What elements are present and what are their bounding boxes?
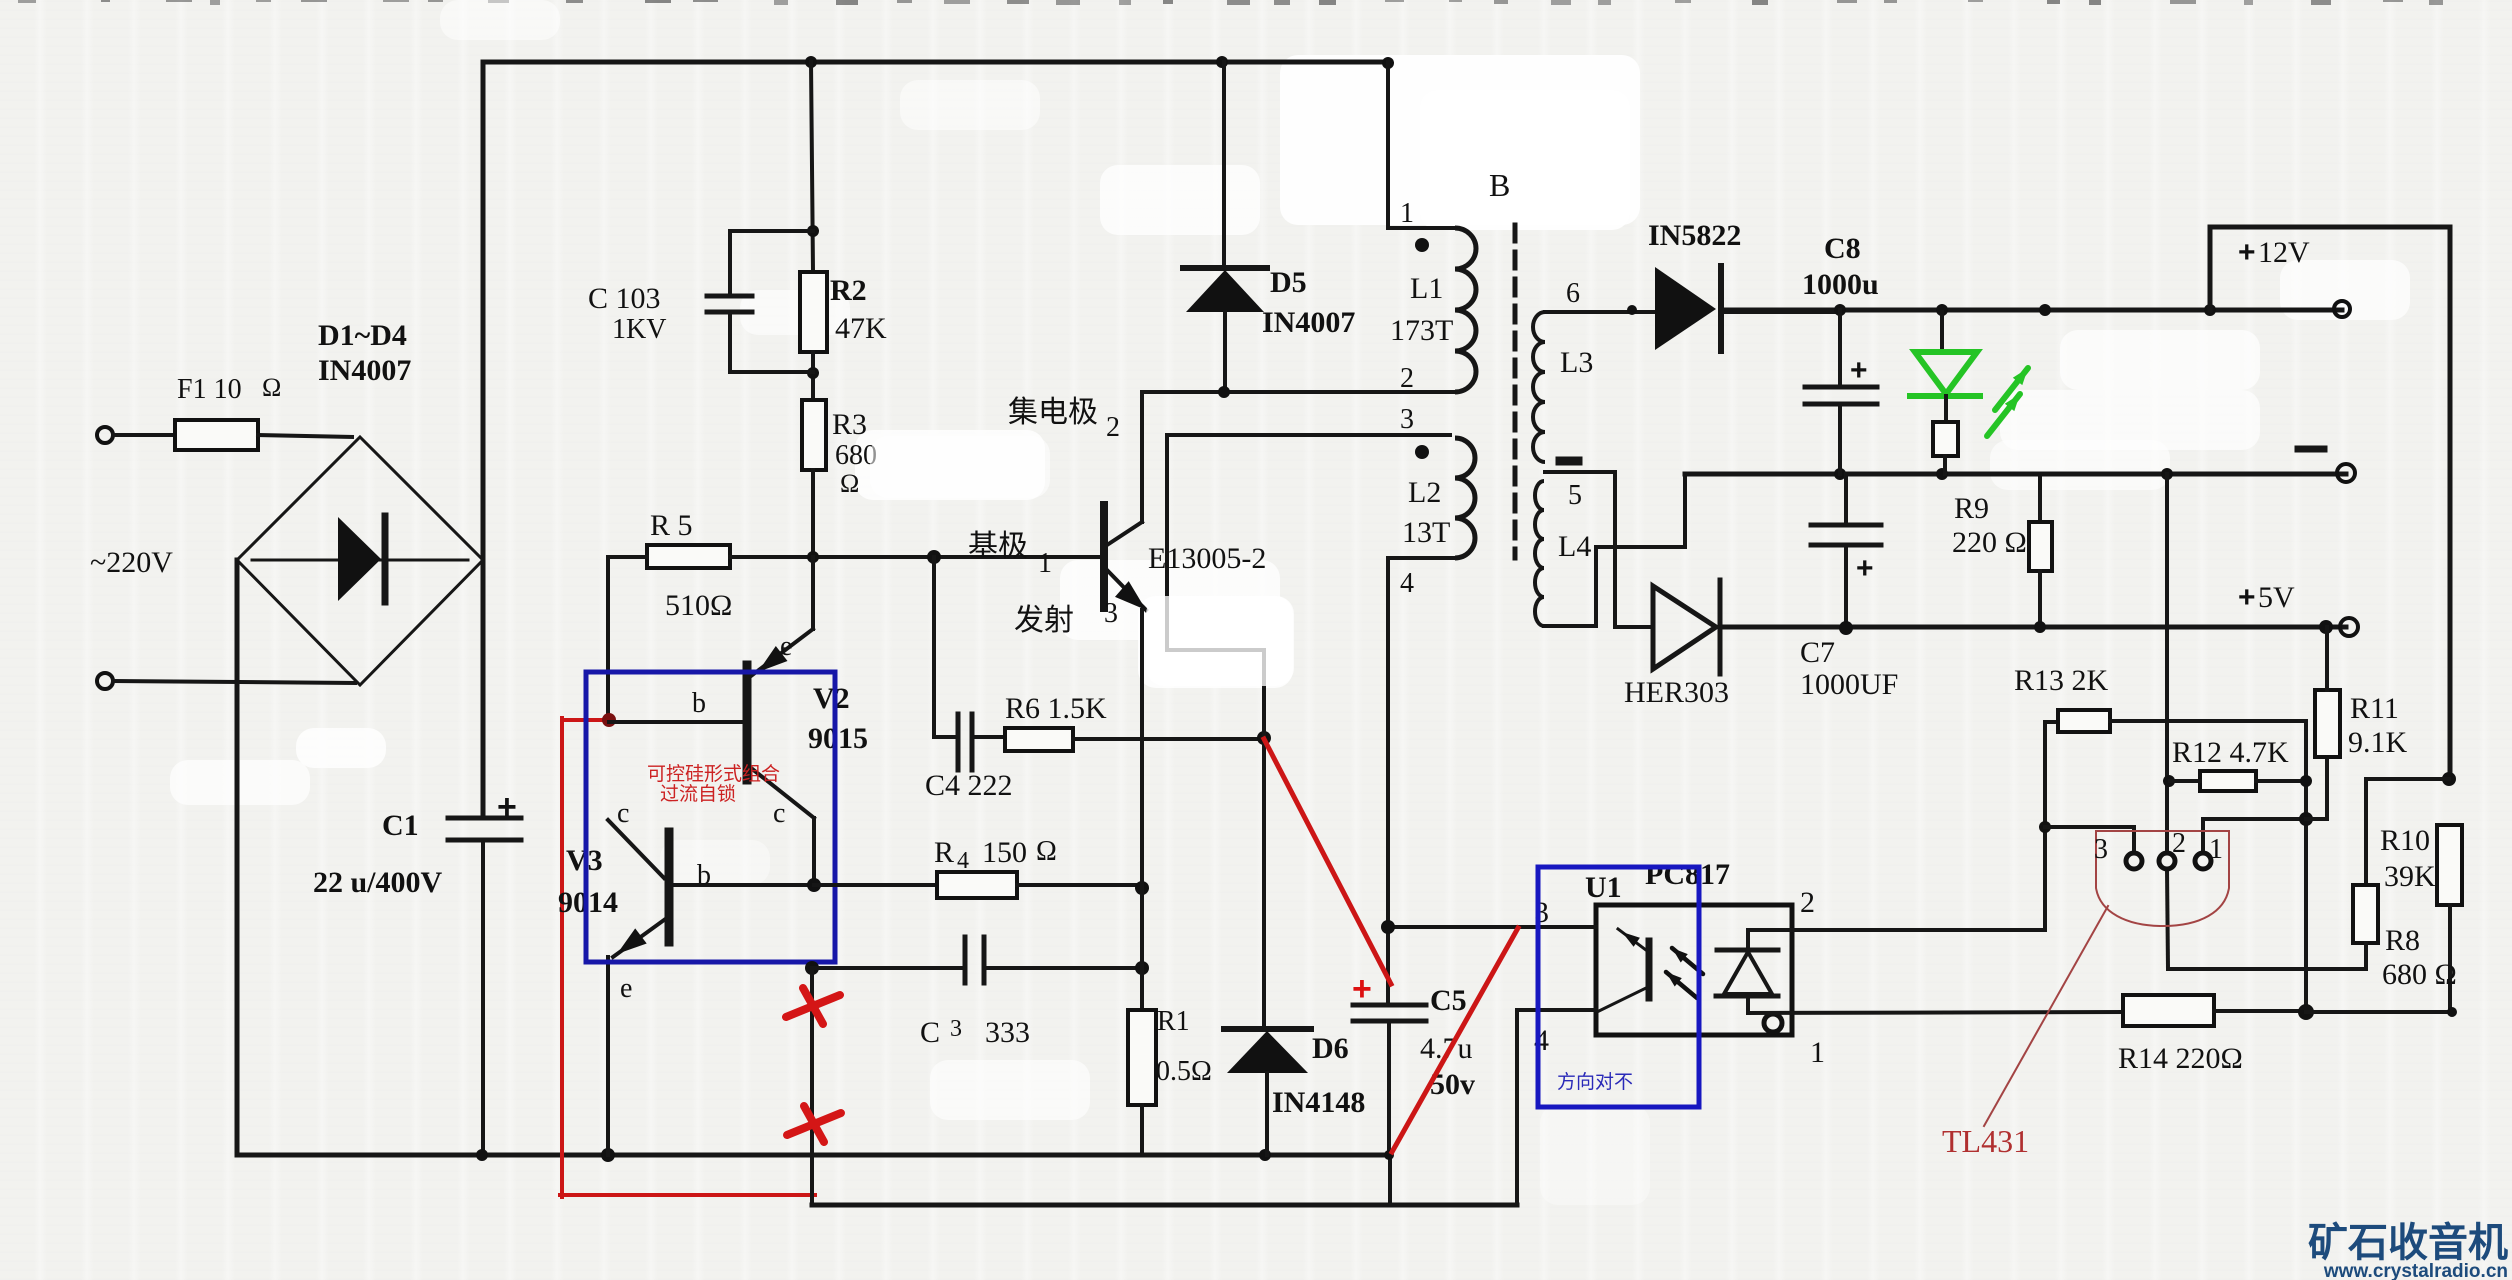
svg-text:矿石收音机: 矿石收音机 bbox=[2308, 1221, 2508, 1265]
svg-text:V2: V2 bbox=[813, 682, 850, 715]
svg-text:220 Ω: 220 Ω bbox=[1952, 526, 2027, 559]
svg-text:+: + bbox=[1352, 970, 1372, 1008]
svg-text:C1: C1 bbox=[382, 809, 419, 842]
svg-text:IN4007: IN4007 bbox=[1262, 306, 1355, 339]
svg-text:PC817: PC817 bbox=[1645, 858, 1730, 891]
svg-text:+: + bbox=[1850, 354, 1868, 387]
svg-text:C 103: C 103 bbox=[588, 282, 661, 315]
svg-text:过流自锁: 过流自锁 bbox=[660, 783, 736, 805]
svg-text:IN4007: IN4007 bbox=[318, 354, 411, 387]
svg-text:R13 2K: R13 2K bbox=[2014, 664, 2109, 697]
svg-text:R1: R1 bbox=[1157, 1006, 1190, 1037]
svg-text:1KV: 1KV bbox=[612, 314, 666, 345]
svg-text:U1: U1 bbox=[1585, 871, 1622, 904]
svg-text:2: 2 bbox=[1106, 412, 1120, 443]
svg-text:1000UF: 1000UF bbox=[1800, 668, 1898, 701]
svg-text:b: b bbox=[697, 860, 711, 891]
svg-text:C8: C8 bbox=[1824, 232, 1861, 265]
svg-text:集电极: 集电极 bbox=[1008, 396, 1098, 429]
svg-text:2: 2 bbox=[2172, 828, 2186, 859]
svg-text:R11: R11 bbox=[2350, 692, 2399, 725]
svg-text:2: 2 bbox=[1400, 363, 1414, 394]
svg-text:1: 1 bbox=[1400, 198, 1414, 229]
svg-text:R: R bbox=[934, 836, 954, 869]
svg-text:R12 4.7K: R12 4.7K bbox=[2172, 736, 2289, 769]
svg-text:39K: 39K bbox=[2384, 860, 2436, 893]
svg-text:IN5822: IN5822 bbox=[1648, 219, 1741, 252]
svg-text:3: 3 bbox=[1400, 404, 1414, 435]
svg-text:b: b bbox=[692, 688, 706, 719]
svg-text:IN4148: IN4148 bbox=[1272, 1086, 1365, 1119]
svg-text:R10: R10 bbox=[2380, 824, 2430, 857]
svg-text:R14 220Ω: R14 220Ω bbox=[2118, 1042, 2243, 1075]
svg-text:R 5: R 5 bbox=[650, 509, 693, 542]
svg-text:12V: 12V bbox=[2258, 236, 2310, 269]
svg-text:510Ω: 510Ω bbox=[665, 589, 732, 622]
svg-text:L1: L1 bbox=[1410, 272, 1443, 305]
svg-text:L3: L3 bbox=[1560, 346, 1593, 379]
svg-text:+: + bbox=[1856, 552, 1874, 585]
svg-text:1000u: 1000u bbox=[1802, 268, 1879, 301]
svg-text:+: + bbox=[2238, 581, 2256, 614]
svg-text:L2: L2 bbox=[1408, 476, 1441, 509]
svg-text:680 Ω: 680 Ω bbox=[2382, 958, 2457, 991]
svg-text:R3: R3 bbox=[832, 408, 867, 441]
svg-text:e: e bbox=[780, 631, 792, 662]
svg-text:13T: 13T bbox=[1402, 516, 1450, 549]
svg-text:D5: D5 bbox=[1270, 266, 1307, 299]
svg-text:~220V: ~220V bbox=[90, 546, 173, 579]
svg-text:1: 1 bbox=[1810, 1036, 1825, 1069]
svg-text:D6: D6 bbox=[1312, 1032, 1349, 1065]
svg-text:R8: R8 bbox=[2385, 924, 2420, 957]
svg-text:6: 6 bbox=[1566, 278, 1580, 309]
svg-text:3: 3 bbox=[950, 1016, 962, 1042]
svg-text:c: c bbox=[617, 798, 629, 829]
svg-text:173T: 173T bbox=[1390, 314, 1453, 347]
svg-text:1: 1 bbox=[2209, 834, 2223, 865]
svg-text:C7: C7 bbox=[1800, 636, 1835, 669]
svg-text:150: 150 bbox=[982, 836, 1027, 869]
svg-text:R2: R2 bbox=[830, 274, 867, 307]
svg-text:L4: L4 bbox=[1558, 530, 1591, 563]
svg-text:可控硅形式组合: 可控硅形式组合 bbox=[647, 763, 780, 785]
svg-text:R9: R9 bbox=[1954, 492, 1989, 525]
svg-text:5V: 5V bbox=[2258, 581, 2295, 614]
svg-text:C: C bbox=[920, 1016, 940, 1049]
svg-text:Ω: Ω bbox=[262, 373, 281, 402]
svg-text:F1 10: F1 10 bbox=[177, 374, 242, 405]
svg-text:C4 222: C4 222 bbox=[925, 769, 1013, 802]
svg-text:B: B bbox=[1489, 167, 1510, 203]
svg-text:TL431: TL431 bbox=[1942, 1123, 2029, 1159]
svg-text:9.1K: 9.1K bbox=[2348, 726, 2408, 759]
svg-text:R6 1.5K: R6 1.5K bbox=[1005, 692, 1107, 725]
svg-text:C5: C5 bbox=[1430, 984, 1467, 1017]
svg-text:方向对不: 方向对不 bbox=[1557, 1071, 1633, 1093]
svg-text:e: e bbox=[620, 973, 632, 1004]
svg-text:333: 333 bbox=[985, 1016, 1030, 1049]
svg-text:HER303: HER303 bbox=[1624, 676, 1729, 709]
svg-text:+: + bbox=[2238, 236, 2256, 269]
svg-text:3: 3 bbox=[2094, 834, 2108, 865]
svg-text:Ω: Ω bbox=[840, 469, 859, 498]
svg-text:2: 2 bbox=[1800, 886, 1815, 919]
svg-text:4: 4 bbox=[1400, 568, 1414, 599]
svg-text:c: c bbox=[773, 798, 785, 829]
svg-text:9015: 9015 bbox=[808, 722, 868, 755]
svg-text:4: 4 bbox=[957, 848, 969, 874]
svg-text:www.crystalradio.cn: www.crystalradio.cn bbox=[2323, 1261, 2508, 1280]
svg-text:D1~D4: D1~D4 bbox=[318, 319, 407, 352]
svg-text:基极: 基极 bbox=[968, 530, 1028, 563]
svg-text:1: 1 bbox=[1038, 548, 1052, 579]
svg-text:47K: 47K bbox=[835, 312, 887, 345]
svg-text:发射: 发射 bbox=[1014, 604, 1074, 637]
svg-text:+: + bbox=[497, 788, 517, 826]
svg-text:3: 3 bbox=[1104, 598, 1118, 629]
svg-text:Ω: Ω bbox=[1036, 836, 1057, 867]
svg-text:22 u/400V: 22 u/400V bbox=[313, 866, 443, 899]
svg-text:5: 5 bbox=[1568, 480, 1582, 511]
svg-text:0.5Ω: 0.5Ω bbox=[1156, 1056, 1212, 1087]
